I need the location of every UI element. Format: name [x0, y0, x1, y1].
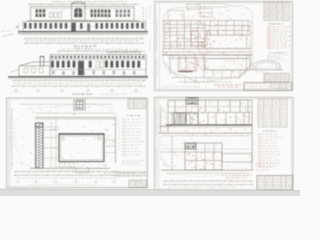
BL bottom dimension text [16, 177, 116, 180]
TR plan red marks top band [205, 21, 249, 36]
sheet BL inner border rect [8, 99, 146, 186]
BR plan second row partitions [171, 113, 173, 126]
TR plan red marks left rooms [163, 22, 206, 49]
paper background [0, 0, 300, 196]
lighting plan sheet group [155, 2, 293, 91]
BL plan grid dots [16, 104, 117, 169]
elevation 2 top dimension line [57, 50, 145, 52]
BR plan room label scatter [163, 107, 245, 163]
BR plan left wing marks [162, 111, 167, 133]
elevation 1 left window cluster [36, 9, 46, 12]
BR plan long room right [222, 154, 252, 163]
TR plan bottom-right room partitions [212, 70, 214, 77]
BL plan room labels scatter [23, 110, 115, 161]
elevation 2 column grid bubbles [15, 89, 18, 92]
elevation 2 top annotation text [60, 48, 140, 51]
TR plan bottom rooms walls [168, 58, 248, 60]
BL plan hatched stair shaft [36, 123, 44, 168]
elevation 1 tower pediment [72, 1, 86, 3]
BL legend heading [127, 114, 140, 117]
BL plan top protrusion structure [74, 100, 85, 111]
BR legend heading [263, 130, 277, 133]
TR top-right schedule table [264, 2, 289, 21]
elevation 1 top dimension line [28, 3, 138, 5]
BR left margin ticks [155, 110, 158, 136]
BR plan name label [222, 174, 252, 177]
BL plan terrace boundary [15, 104, 120, 171]
elevation 1 mid annotation marks [52, 9, 66, 12]
TR schedule cell entries [265, 1, 287, 4]
elevation 1 lower dimension line [24, 42, 144, 44]
elevation 2 dimension numbers [14, 82, 141, 85]
BL plan dimension line inside top [35, 112, 115, 114]
elevation 1 entrance door [71, 23, 76, 32]
BR plan lower room cluster [185, 143, 222, 170]
BR plan chamfer bottom-left [161, 158, 173, 170]
BL plan pool basin outer [59, 134, 104, 162]
BL plan left terrace marks [16, 144, 34, 166]
TR plan red lighting marks scatter [163, 20, 250, 79]
BR plan left wing walls [160, 105, 162, 133]
sheet BL border [7, 98, 148, 188]
BR plan top protrusion [186, 98, 198, 105]
BR plan top rooms first row partitions [174, 100, 176, 112]
TR vault detail hatch [254, 67, 256, 70]
BR plan top rooms red marks [172, 103, 251, 125]
BR plan top outer wall [168, 99, 252, 101]
TR plan dark accents [165, 23, 244, 73]
BL bottom tick row 2 [14, 174, 120, 176]
elevation 1 left level marks [18, 23, 21, 33]
elevation 1 lower tick row [24, 38, 144, 40]
BL legend rows [123, 119, 126, 120]
BR legend rows [258, 134, 261, 135]
elevation 2 annex windows [24, 68, 28, 73]
BL label left of stamp [104, 172, 112, 175]
TR plan faint hall texture [206, 36, 244, 46]
elevation 2 main window row [51, 61, 140, 68]
BL plan pool inner line [61, 136, 103, 160]
TR plan bottom-left chamfer [165, 62, 179, 78]
TR plan top-centre rooms block [187, 4, 200, 9]
sheet TR inner frame line [159, 2, 161, 91]
BL bottom grid bubbles [17, 180, 19, 182]
BR top-right schedule table [258, 99, 287, 127]
BR plan bottom-left area walls [171, 136, 173, 170]
BL plan top edge marks [32, 107, 111, 113]
photo bottom grey band [0, 189, 300, 196]
BL plan misc interior walls [43, 129, 59, 131]
BL notes text [122, 159, 143, 162]
BR plan terrace boundary [161, 101, 254, 177]
elevation 2 band line [50, 58, 146, 60]
BR bottom text [168, 186, 237, 189]
BR plan bottom boundary walls [161, 169, 253, 171]
BR plan top rooms row divider [168, 112, 252, 114]
elevation 1 tower arched window [75, 8, 83, 17]
TR plan bottom-right room interior marks [208, 60, 244, 69]
sheet TR border [155, 2, 293, 91]
photo bottom edge shadow line [0, 189, 300, 190]
elevation 1 right window cluster B [116, 10, 131, 13]
TR plan red room cluster bottom-left [179, 57, 203, 73]
elevation 1 left-middle small windows [50, 13, 53, 18]
BR plan small dark detail [185, 143, 196, 149]
TR plan left margin ticks [156, 20, 159, 50]
elevation 2 sill line [50, 69, 146, 71]
TR plan red room cluster centre [190, 30, 211, 48]
BL plan upper dimension line [20, 103, 112, 105]
elevation 1 ground floor band outline [23, 22, 146, 32]
elevation 1 base line thick [18, 31, 148, 33]
elevation 1 top annotation text [52, 0, 127, 3]
TR plan column grid dots [163, 6, 250, 75]
TR plan terrace boundary curved [163, 7, 196, 22]
BR plan stair block dark [174, 113, 186, 125]
elevation 2 far-left ramp [10, 69, 19, 76]
TR plan top bump outline [196, 4, 228, 8]
elevation 2 ground line 2 [8, 78, 148, 80]
BR plan hall dots [162, 136, 250, 167]
TR plan left rooms horizontal wall segments [163, 24, 185, 26]
BR plan lower cluster red hatch [188, 153, 221, 170]
BL title strip [113, 171, 147, 173]
elevation 1 base line 2 [18, 32, 148, 34]
elevation 2 entrance door dark [78, 61, 84, 75]
BL top-right small table [128, 99, 146, 109]
BL plan top wall line [35, 117, 116, 119]
TR plan name label [214, 84, 241, 87]
elevation 2 bottom label [72, 94, 92, 95]
sheet BR border [155, 97, 294, 191]
BL bottom small text [30, 183, 100, 186]
TR small stamp table [264, 74, 289, 82]
elevation 2 annex roof slope [19, 62, 50, 66]
TR sheet bottom-left note text [163, 85, 200, 88]
elevation 1 right margin vertical text [142, 7, 145, 27]
elevation 2 left annex [19, 66, 50, 76]
floor plan sheet 1 group [7, 98, 148, 188]
BL plan pool ladder marks [62, 138, 64, 140]
elevation 2 raised parapet block [108, 52, 140, 55]
elevation 1 title label [74, 46, 96, 47]
elevation 2 main block outline [50, 55, 146, 77]
TR plan hall open area outline [205, 35, 247, 49]
elevation 2 clerestory window row [51, 56, 144, 59]
elevation 1 base line 3 [20, 34, 146, 36]
BR signature text block [256, 162, 274, 165]
BL plan steps below pool [60, 163, 74, 168]
elevation 1 parapet line [31, 7, 135, 9]
TR plan right band marks [236, 22, 252, 59]
BR plan thick wall below rooms [166, 124, 253, 126]
TR plan building top wall [163, 20, 250, 22]
elevation 1 right window cluster A [91, 9, 111, 12]
BR plan mid dimension line [163, 148, 250, 150]
BR plan corridor walls [159, 126, 253, 128]
BL corner stamp [129, 180, 147, 187]
TR plan bottom rooms cluster [184, 78, 186, 84]
TR plan top band partitions [209, 21, 211, 36]
elevation 2 first tick row [12, 80, 146, 82]
BR bottom tick row [163, 180, 253, 182]
elevation 1 secondary door [87, 23, 90, 30]
BR plan top rooms grey marks [170, 102, 250, 123]
BR plan dark room beside stair [186, 113, 198, 125]
TR plan top rooms band right [205, 25, 250, 27]
elevation 1 upper facade outline [31, 7, 135, 21]
TR legend rows [268, 26, 271, 27]
BL plan interior small marks [51, 122, 115, 132]
TR legend heading [269, 23, 283, 26]
sheet BR inner border rect [156, 99, 291, 190]
TR notes block [269, 52, 283, 55]
elevation 2 main dimension line [12, 85, 146, 87]
elevation sheet group [2, 1, 148, 94]
sheet TR inner border rect [156, 3, 291, 89]
TR plan corridor band [162, 48, 251, 50]
TR plan bottom boundary [172, 77, 240, 79]
margin text between top sheets [149, 6, 152, 18]
TR plan bottom-left thick wall [178, 71, 193, 73]
BL left dimension column [11, 108, 13, 170]
TR title block [244, 83, 292, 91]
BL plan bottom-centre entrance [76, 168, 89, 173]
TR plan top-centre red marks [187, 6, 210, 21]
elevation 1 dimension numbers row [26, 40, 139, 43]
TR plan terrace sparse marks [169, 8, 247, 19]
TR vault detail drawing [253, 60, 280, 69]
BL plan pool top edge thick [59, 133, 105, 135]
BR plan corridor red dashes [163, 127, 245, 136]
BR title block [257, 176, 293, 190]
TR plan bottom-right chamfer [238, 63, 252, 79]
TR plan red corridor fittings [165, 49, 250, 56]
floor plan sheet 2 group [155, 97, 294, 191]
BR bottom dimension line 2 [163, 184, 253, 186]
TR vault detail labels [277, 51, 288, 54]
elevation 2 mid light zone windows [96, 62, 99, 68]
elevation 1 string course lines [27, 20, 140, 22]
elevation 1 far-left dimension arrow [3, 34, 14, 37]
elevation 2 bottom small text [100, 93, 126, 96]
elevation 1 ground floor window row [24, 23, 144, 29]
sheet BR inner frame [158, 97, 160, 191]
elevation 2 lower sparse marks [52, 71, 135, 75]
elevation 1 centre tower [72, 3, 86, 20]
BR plan scattered red symbols [163, 105, 250, 168]
TR plan left rooms vertical walls [164, 21, 166, 49]
BL plan right wall [115, 118, 117, 163]
BL plan bottom wall [30, 167, 110, 169]
TR plan terrace ring emphasis [163, 60, 248, 82]
BL plan stair shaft top cap [36, 123, 44, 127]
BL bottom tick row 1 [14, 171, 120, 173]
sheet BL left inner border [9, 98, 11, 188]
TR bottom margin ticks [169, 85, 230, 86]
elevation 2 chimney [40, 56, 44, 65]
BR plan right outer wall [251, 100, 253, 170]
elevation 2 top-left label [74, 47, 91, 50]
elevation 1 tower window mullions [77, 7, 79, 17]
TR plan bottom rooms verticals [169, 55, 171, 74]
elevation 2 ground line thick [8, 76, 148, 78]
